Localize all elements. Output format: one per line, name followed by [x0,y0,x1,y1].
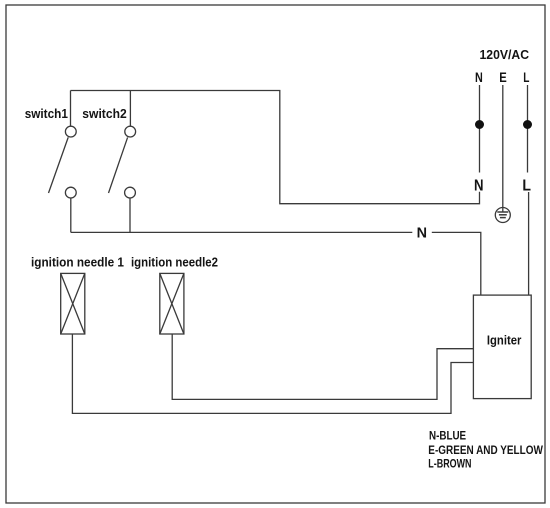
svg-text:Igniter: Igniter [487,333,522,348]
switch S1 [49,91,77,233]
wire E supply [502,85,504,208]
svg-text:120V/AC: 120V/AC [480,47,530,62]
wire needle1 to igniter [72,334,473,413]
wire top bus from switches to right descent [71,91,480,204]
igniter U1 body [473,295,531,399]
switch S2 [109,91,136,233]
svg-text:switch2: switch2 [82,106,126,121]
svg-text:L: L [522,178,531,195]
svg-text:E-GREEN AND YELLOW: E-GREEN AND YELLOW [428,445,543,457]
svg-text:L: L [523,69,530,85]
svg-text:switch1: switch1 [25,106,68,121]
svg-text:N: N [417,224,427,241]
junction dot on N supply [475,120,484,129]
ignition needle 2 body [160,273,184,334]
svg-text:L-BROWN: L-BROWN [428,459,471,471]
svg-text:ignition needle2: ignition needle2 [131,255,218,270]
svg-text:N: N [474,178,484,195]
svg-text:N: N [475,69,483,85]
earth ground symbol [495,208,510,223]
wire N supply upper segment [479,85,481,173]
svg-text:N-BLUE: N-BLUE [429,431,466,443]
wire N return bus left part [71,231,413,233]
ignition needle 1 body [61,273,85,334]
wire L supply upper segment [527,85,529,173]
svg-text:E: E [499,69,507,85]
wire N return bus right part to igniter [432,232,481,295]
junction dot on L supply [523,120,532,129]
wire needle2 to igniter [172,334,473,399]
svg-text:ignition needle 1: ignition needle 1 [31,255,124,270]
wire L supply to igniter [528,192,530,295]
